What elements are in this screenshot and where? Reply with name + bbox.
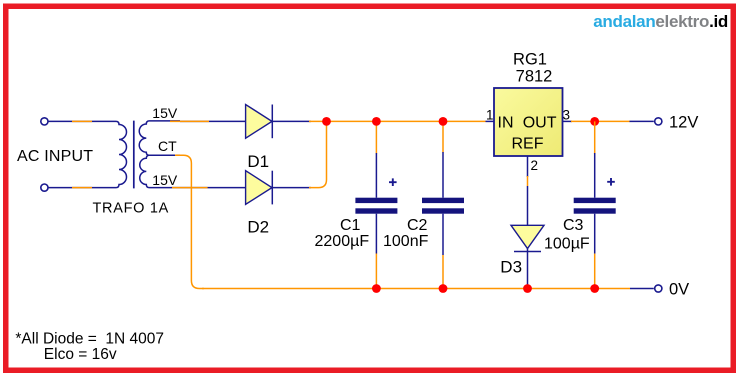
- diode D2: [246, 171, 273, 205]
- svg-text:15V: 15V: [152, 172, 178, 188]
- polarity plus C3: [607, 178, 615, 186]
- regulator RG1 7812 body: [494, 88, 563, 156]
- svg-text:C3: C3: [563, 217, 584, 234]
- svg-text:RG1: RG1: [513, 51, 547, 69]
- capacitor C1: [355, 198, 397, 214]
- svg-text:0V: 0V: [669, 281, 689, 299]
- svg-text:100µF: 100µF: [544, 236, 590, 253]
- node F junction: [372, 284, 381, 293]
- wire C2 bottom: [442, 214, 444, 289]
- wire pin 3 to node D: [563, 120, 595, 122]
- svg-text:*All Diode = 1N 4007: *All Diode = 1N 4007: [15, 331, 164, 348]
- wire C1 top: [375, 121, 377, 197]
- svg-text:AC INPUT: AC INPUT: [17, 148, 93, 165]
- wire D3 to 0V rail: [527, 252, 529, 289]
- svg-text:7812: 7812: [516, 68, 553, 86]
- transformer TR1 secondary bottom winding: [140, 155, 180, 187]
- wire pin 2 to D3: [527, 156, 529, 225]
- svg-text:2200µF: 2200µF: [315, 233, 370, 250]
- wire D1 to node A: [272, 120, 326, 122]
- wire C1 bottom: [375, 214, 377, 289]
- terminal 0V: [655, 285, 662, 292]
- wire C3 bottom: [594, 214, 596, 289]
- svg-text:C1: C1: [340, 217, 361, 234]
- terminal 12V: [655, 118, 662, 125]
- svg-text:D1: D1: [247, 152, 269, 171]
- svg-text:Elco = 16v: Elco = 16v: [44, 346, 117, 363]
- svg-text:TRAFO 1A: TRAFO 1A: [93, 201, 170, 217]
- svg-text:D3: D3: [500, 258, 522, 277]
- terminal AC bottom: [41, 184, 48, 191]
- terminal AC top: [41, 118, 48, 125]
- transformer TR1 core: [133, 121, 135, 189]
- capacitor C3: [574, 198, 616, 214]
- node G junction: [439, 284, 448, 293]
- svg-text:D2: D2: [247, 217, 269, 236]
- transformer TR1 primary winding: [48, 121, 126, 187]
- wire 0V rail: [202, 288, 654, 290]
- svg-text:12V: 12V: [669, 114, 698, 132]
- svg-text:REF: REF: [512, 136, 544, 153]
- wire AC top orange segment: [72, 120, 92, 122]
- node E junction: [523, 284, 532, 293]
- node D junction: [590, 117, 599, 126]
- wire node D to 12V terminal: [595, 120, 654, 122]
- polarity plus C1: [389, 178, 397, 186]
- diode D3: [511, 225, 544, 251]
- svg-text:3: 3: [563, 108, 571, 123]
- svg-text:15V: 15V: [152, 105, 178, 121]
- svg-text:1: 1: [486, 108, 494, 123]
- node B junction: [372, 117, 381, 126]
- wire 12V rail (node A to regulator pin 1): [327, 120, 495, 122]
- diode D1: [246, 105, 273, 139]
- transformer TR1 secondary top winding: [139, 121, 180, 155]
- wire C2 top: [442, 121, 444, 197]
- svg-text:C2: C2: [407, 217, 428, 234]
- wire D2 up to node A: [272, 121, 326, 187]
- wire CT: [175, 155, 204, 288]
- svg-text:2: 2: [531, 158, 539, 173]
- capacitor C2: [422, 198, 464, 214]
- wire 15V bottom to D2: [172, 187, 246, 189]
- svg-text:IN: IN: [498, 115, 514, 132]
- wire 15V top to D1: [170, 120, 246, 122]
- wire C3 top: [594, 121, 596, 197]
- svg-text:CT: CT: [158, 138, 177, 154]
- node H junction: [590, 284, 599, 293]
- node C junction: [439, 117, 448, 126]
- wire AC bottom orange segment: [72, 187, 92, 189]
- node A junction: [322, 117, 331, 126]
- svg-text:andalanelektro.id: andalanelektro.id: [593, 12, 728, 31]
- svg-text:OUT: OUT: [523, 115, 557, 132]
- svg-text:100nF: 100nF: [383, 233, 429, 250]
